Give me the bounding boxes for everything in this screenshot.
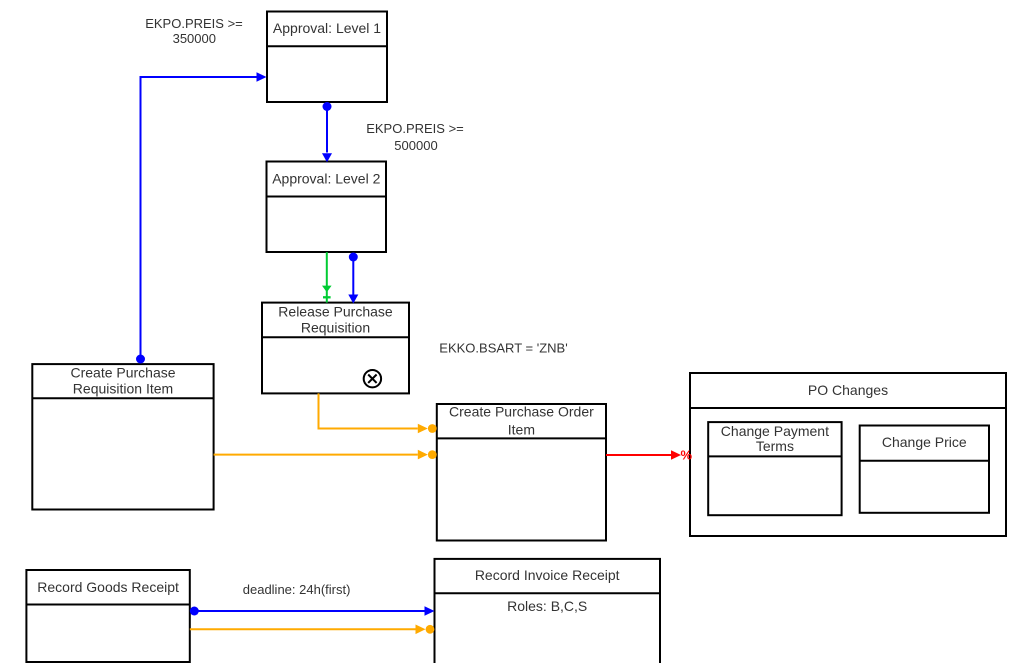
group box: PO Changes <box>690 373 1006 536</box>
activity box: Create Purchase Requisition Item <box>32 364 213 509</box>
activity box: Change Payment Terms <box>708 422 841 515</box>
svg-text:Change Price: Change Price <box>882 434 967 450</box>
svg-text:Record Invoice Receipt: Record Invoice Receipt <box>475 567 620 583</box>
orange response edge: Release Purchase Requisition to Create Purchase Order Item <box>319 393 437 433</box>
cancel marker (circled X) inside Release Purchase Requisition <box>364 370 381 387</box>
label: EKPO.PREIS >= 500000 <box>366 121 464 153</box>
activity box: Change Price <box>860 426 989 513</box>
svg-text:%: % <box>681 448 693 463</box>
activity box: Release Purchase Requisition <box>262 303 409 394</box>
svg-text:Create Purchase Order: Create Purchase Order <box>449 403 594 419</box>
blue precedence edge: Record Goods Receipt to Record Invoice Receipt <box>190 606 435 616</box>
orange response edge: Create Purchase Requisition Item to Create Purchase Order Item <box>214 450 437 460</box>
svg-text:EKPO.PREIS >=: EKPO.PREIS >= <box>145 16 243 31</box>
svg-text:350000: 350000 <box>173 31 216 46</box>
svg-text:EKPO.PREIS >=: EKPO.PREIS >= <box>366 121 464 136</box>
red negative edge: Create Purchase Order Item to PO Changes <box>606 448 693 463</box>
svg-text:Requisition: Requisition <box>301 320 370 336</box>
svg-text:deadline: 24h(first): deadline: 24h(first) <box>243 582 351 597</box>
svg-text:EKKO.BSART = 'ZNB': EKKO.BSART = 'ZNB' <box>439 341 567 356</box>
svg-text:Roles: B,C,S: Roles: B,C,S <box>507 598 587 614</box>
orange response edge: Record Goods Receipt to Record Invoice Receipt <box>190 625 435 635</box>
green succession edge: Approval: Level 2 to Release Purchase Requisition <box>322 252 332 302</box>
svg-text:Release Purchase: Release Purchase <box>278 304 393 320</box>
svg-text:Approval: Level 1: Approval: Level 1 <box>273 20 381 36</box>
svg-text:Terms: Terms <box>756 438 794 454</box>
svg-text:Item: Item <box>508 421 535 437</box>
label: EKPO.PREIS >= 350000 <box>145 16 243 46</box>
svg-text:500000: 500000 <box>394 138 437 153</box>
blue precedence edge: Approval: Level 2 to Release Purchase Requisition <box>348 253 358 304</box>
blue precedence edge: Approval: Level 1 to Approval: Level 2 <box>322 102 332 162</box>
activity box: Record Invoice Receipt <box>435 559 661 663</box>
activity box: Record Goods Receipt <box>26 570 189 662</box>
blue precedence edge: Create Purchase Requisition Item to Approval: Level 1 <box>136 72 267 363</box>
svg-text:Approval: Level 2: Approval: Level 2 <box>272 171 380 187</box>
svg-text:Create Purchase: Create Purchase <box>70 365 175 381</box>
label: EKKO.BSART = 'ZNB' <box>439 341 567 356</box>
label: deadline: 24h(first) <box>243 582 351 597</box>
svg-text:Requisition Item: Requisition Item <box>73 381 173 397</box>
svg-text:PO Changes: PO Changes <box>808 382 888 398</box>
svg-text:Record Goods Receipt: Record Goods Receipt <box>37 579 179 595</box>
activity box: Create Purchase Order Item <box>437 403 606 540</box>
svg-text:Change Payment: Change Payment <box>721 423 829 439</box>
activity box: Approval: Level 1 <box>267 12 387 103</box>
activity box: Approval: Level 2 <box>267 162 387 253</box>
